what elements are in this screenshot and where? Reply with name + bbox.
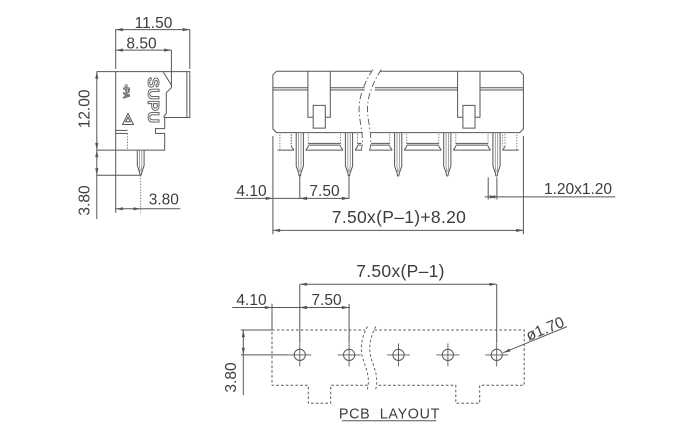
- overall dimension line: [273, 229, 524, 231]
- svg-text:7.50: 7.50: [309, 183, 340, 200]
- pin slot wall right: [504, 134, 506, 147]
- bottom band lower edge: [306, 149, 343, 151]
- caption underline: [342, 420, 436, 422]
- bottom band lower edge: [355, 149, 361, 151]
- side view left ledge upper line: [116, 129, 128, 131]
- extension bottom 12.00: [97, 149, 116, 151]
- bottom band lower edge: [370, 149, 392, 151]
- extension line 8.50: [170, 50, 172, 86]
- svg-text:7.50x(P–1)+8.20: 7.50x(P–1)+8.20: [332, 207, 466, 227]
- bay rail lower: [456, 144, 488, 146]
- front rib line lower: [375, 89, 458, 91]
- pin slot chamfer left: [341, 147, 344, 151]
- pcb left edge extension up: [271, 304, 273, 330]
- pin slot wall left: [389, 134, 391, 147]
- svg-text:1.20x1.20: 1.20x1.20: [544, 181, 612, 198]
- mounting tab 2 latch top: [463, 105, 475, 117]
- pin slot chamfer left: [291, 147, 294, 151]
- pcb break line right: [370, 327, 377, 390]
- front rib line upper: [330, 87, 364, 89]
- pcb hole 5: [491, 349, 502, 360]
- bay rail lower: [371, 144, 390, 146]
- pin slot wall left: [290, 134, 292, 147]
- pin1 tip extension: [299, 175, 301, 199]
- pin slot wall right: [307, 134, 309, 147]
- diameter leader line: [503, 327, 567, 353]
- side view left ledge lower line: [116, 132, 128, 134]
- pcb extension line hole axis: [241, 354, 288, 356]
- side view hidden pocket wall: [127, 133, 129, 150]
- pin slot chamfer right: [404, 147, 407, 151]
- side view solder pin: [137, 150, 144, 175]
- svg-text:7.50: 7.50: [311, 292, 342, 309]
- svg-text:3.80: 3.80: [223, 362, 240, 393]
- dimension line 8.50: [115, 49, 171, 51]
- pin slot chamfer right: [306, 147, 309, 151]
- dimension line 11.50: [115, 29, 190, 31]
- front pin 4: [444, 133, 451, 177]
- recycle triangle inner: [126, 117, 131, 122]
- bay rail lower: [308, 144, 340, 146]
- mounting tab 2 latch foot: [463, 117, 475, 128]
- side view flange inner edge: [186, 72, 188, 118]
- bay rail upper: [456, 142, 488, 144]
- svg-text:PCB LAYOUT: PCB LAYOUT: [339, 407, 440, 423]
- pin slot chamfer left: [439, 147, 442, 151]
- svg-text:12.00: 12.00: [77, 89, 94, 128]
- svg-text:4.10: 4.10: [236, 292, 267, 309]
- hole2 centerline extension: [348, 304, 350, 343]
- pcb hole 1: [294, 349, 305, 360]
- front pin 5: [493, 133, 500, 177]
- extension line body left edge down: [115, 150, 117, 213]
- break line left: [359, 70, 373, 152]
- side view body outline: [116, 72, 190, 151]
- front extension line body left edge: [272, 136, 274, 234]
- pin slot wall right: [406, 134, 408, 147]
- svg-text:4.10: 4.10: [236, 183, 267, 200]
- svg-text:SUPU: SUPU: [144, 77, 161, 123]
- svg-text:•PA: •PA: [121, 84, 131, 98]
- extension line right 11.50: [189, 30, 191, 69]
- extension top 12.00: [97, 71, 116, 73]
- svg-text:3.80: 3.80: [77, 185, 94, 216]
- front dimension line 4.10/7.50: [234, 197, 349, 199]
- front extension line body right edge: [522, 136, 524, 234]
- bay rail upper: [407, 142, 439, 144]
- front rib line lower: [480, 89, 523, 91]
- front rib line upper: [375, 87, 458, 89]
- bay rail upper: [308, 142, 340, 144]
- pcb extension line top: [241, 329, 272, 331]
- pin slot wall left: [487, 134, 489, 147]
- left end pocket walls: [280, 135, 291, 151]
- mounting tab 2 outline: [458, 71, 480, 117]
- pcb hole 4: [442, 349, 453, 360]
- right end pocket walls: [503, 135, 517, 151]
- mounting tab 1 latch top: [313, 105, 325, 117]
- front pin 3: [395, 133, 402, 177]
- svg-text:7.50x(P–1): 7.50x(P–1): [356, 261, 445, 281]
- hole1 centerline extension up: [299, 284, 301, 343]
- pin slot wall left: [438, 134, 440, 147]
- pcb dimension line 7.50x(P-1): [300, 283, 497, 285]
- bottom band lower edge: [453, 149, 490, 151]
- hole5 centerline extension up: [496, 284, 498, 343]
- pin5 right edge extension: [496, 178, 498, 200]
- pin2 tip extension: [348, 175, 350, 199]
- pcb dimension line 3.80: [242, 330, 244, 395]
- pcb hole 2: [344, 349, 355, 360]
- side view internal contour: [163, 72, 171, 118]
- front rib line lower: [273, 89, 308, 91]
- pin slot wall right: [455, 134, 457, 147]
- pcb footprint outline dashed: [272, 330, 524, 403]
- bay rail lower: [358, 144, 362, 146]
- bay rail upper: [358, 142, 362, 144]
- pin slot wall left: [340, 134, 342, 147]
- dimension line 3.80 horizontal: [115, 208, 180, 210]
- front pin 2: [345, 133, 352, 177]
- pcb hole 3: [393, 349, 404, 360]
- mounting tab 1 latch foot: [313, 117, 325, 128]
- svg-text:3.80: 3.80: [149, 191, 180, 208]
- dimension line column 12.00/3.80: [96, 72, 98, 219]
- pin centerline dotted: [140, 175, 142, 213]
- front rib line upper: [480, 87, 523, 89]
- pcb dimension line 4.10/7.50: [232, 307, 349, 309]
- leader line 1.20x1.20: [485, 196, 615, 198]
- pin5 left edge extension: [487, 178, 489, 200]
- pin slot chamfer right: [355, 147, 358, 151]
- pin slot chamfer right: [453, 147, 456, 151]
- bottom band lower edge: [404, 149, 441, 151]
- pin slot chamfer right: [503, 147, 506, 151]
- break line right: [367, 70, 381, 152]
- bottom band lower edge: [278, 149, 294, 151]
- recycle triangle symbol: [123, 114, 134, 125]
- bay rail upper: [371, 142, 390, 144]
- pin slot chamfer left: [390, 147, 393, 151]
- front view body outline: [273, 71, 524, 132]
- pin slot chamfer left: [488, 147, 491, 151]
- front rib line upper: [273, 87, 308, 89]
- extension line pin tip: [97, 174, 141, 176]
- mounting tab 1 outline: [308, 71, 330, 117]
- pin slot wall right: [357, 134, 359, 147]
- front rib line lower: [330, 89, 364, 91]
- bay rail lower: [407, 144, 439, 146]
- front pin 1: [296, 133, 303, 177]
- bottom band lower edge: [503, 149, 519, 151]
- pcb break line left: [361, 327, 368, 390]
- extension line left 11.50: [115, 30, 117, 69]
